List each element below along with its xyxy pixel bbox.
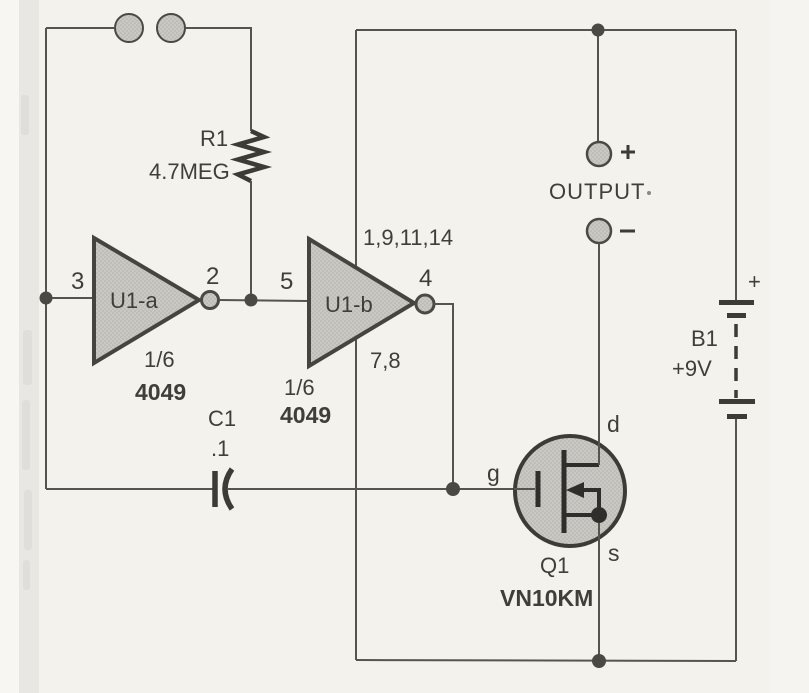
label VN10KM	[500, 585, 593, 611]
svg-text:U1-b: U1-b	[325, 292, 373, 317]
op-amp U1-a (inverter triangle)	[94, 238, 199, 363]
pin 2 label	[206, 263, 219, 290]
label 4.7MEG	[149, 159, 230, 184]
node top rail junction	[592, 24, 605, 37]
svg-text:1,9,11,14: 1,9,11,14	[363, 225, 453, 250]
label Q1	[540, 553, 569, 578]
svg-text:B1: B1	[691, 326, 718, 351]
wire supply rail left side of output loop	[355, 30, 357, 660]
wire top-left horizontal from left rail to touch contacts	[46, 27, 114, 29]
label B1	[691, 326, 718, 351]
svg-text:Q1: Q1	[540, 553, 569, 578]
touch contact TP2	[157, 14, 185, 42]
wire source down to bottom rail	[598, 523, 600, 661]
wire right rail top to battery	[735, 30, 737, 300]
battery B1 bottom cell long plate	[719, 399, 755, 404]
drain stub	[564, 463, 599, 467]
node at U1-a input	[40, 292, 53, 305]
battery dashed link	[734, 324, 738, 398]
svg-text:7,8: 7,8	[370, 348, 401, 373]
node gate junction	[446, 482, 460, 496]
wire top of output loop	[356, 29, 736, 31]
pin 4 label	[419, 265, 432, 292]
minus sign at output	[620, 230, 635, 233]
svg-text:3: 3	[71, 268, 84, 295]
label OUTPUT	[549, 179, 651, 204]
wire + output branch from top rail	[597, 30, 599, 142]
wire battery to bottom rail	[735, 419, 737, 661]
svg-text:d: d	[607, 411, 620, 437]
inverter bubble U1-b output	[416, 295, 434, 313]
pins 1,9,11,14 label	[363, 225, 453, 250]
capacitor C1	[215, 469, 232, 509]
gate lead inside	[514, 488, 535, 490]
svg-text:R1: R1	[200, 126, 228, 151]
plus sign at output	[621, 145, 635, 159]
pin 5 label	[280, 268, 293, 295]
svg-text:4049: 4049	[280, 402, 331, 428]
gate bar	[536, 471, 541, 507]
wire - terminal down to drain	[598, 243, 600, 465]
inverter bubble U1-a output	[202, 292, 219, 309]
svg-text:5: 5	[280, 268, 293, 295]
battery B1 top cell short plate	[727, 313, 746, 318]
op-amp U1-b (inverter triangle)	[309, 239, 414, 366]
wire U1-a output to U1-b input	[219, 300, 309, 301]
wire input to U1-a	[46, 297, 94, 299]
svg-text:U1-a: U1-a	[110, 288, 158, 313]
label 4049 (U1-a)	[135, 379, 186, 405]
body arrow line	[580, 490, 599, 515]
label 4049 (U1-b)	[280, 402, 331, 428]
output terminal +	[587, 142, 611, 166]
wire from touch contacts to R1 branch corner	[186, 28, 251, 131]
channel bar	[562, 450, 567, 533]
pin 3 label	[71, 268, 84, 295]
svg-text:g: g	[487, 460, 500, 486]
svg-text:4.7MEG: 4.7MEG	[149, 159, 230, 184]
wire left rail vertical	[45, 28, 47, 489]
label 1/6 (U1-b)	[284, 375, 315, 400]
label g	[487, 460, 500, 486]
wire C1/gate line	[46, 488, 537, 490]
label 1/6 (U1-a)	[144, 347, 175, 372]
wire bottom of output loop	[356, 660, 736, 661]
label d	[607, 411, 620, 437]
svg-text:.1: .1	[211, 436, 229, 461]
source stub	[564, 513, 599, 517]
svg-text:+: +	[748, 269, 761, 294]
battery B1 bottom cell short plate	[727, 414, 747, 419]
transistor Q1 (VMOS FET)	[514, 436, 625, 546]
pins 7,8 label	[370, 348, 401, 373]
label +9V	[672, 356, 712, 381]
label C1	[208, 406, 236, 431]
svg-text:2: 2	[206, 263, 219, 290]
battery plus label	[748, 269, 761, 294]
svg-text:4049: 4049	[135, 379, 186, 405]
svg-text:4: 4	[419, 265, 432, 292]
svg-text:+9V: +9V	[672, 356, 712, 381]
label .1	[211, 436, 229, 461]
svg-text:VN10KM: VN10KM	[500, 585, 593, 611]
node joining R1 to inverter chain	[245, 294, 258, 307]
source dot	[591, 507, 607, 523]
svg-text:C1: C1	[208, 406, 236, 431]
touch contact TP1	[115, 14, 143, 42]
wire U1-b output down to gate line	[434, 304, 453, 489]
drain lead inside	[598, 436, 600, 465]
resistor R1	[238, 131, 264, 181]
label s	[608, 540, 620, 566]
svg-text:OUTPUT: OUTPUT	[549, 179, 645, 204]
battery B1 top cell long plate	[719, 300, 754, 305]
wire R1 bottom to node at pin2	[250, 181, 252, 299]
svg-text:s: s	[608, 540, 620, 566]
svg-text:1/6: 1/6	[284, 375, 315, 400]
node bottom rail junction	[592, 654, 606, 668]
output terminal -	[587, 219, 611, 243]
svg-text:1/6: 1/6	[144, 347, 175, 372]
label R1	[200, 126, 228, 151]
